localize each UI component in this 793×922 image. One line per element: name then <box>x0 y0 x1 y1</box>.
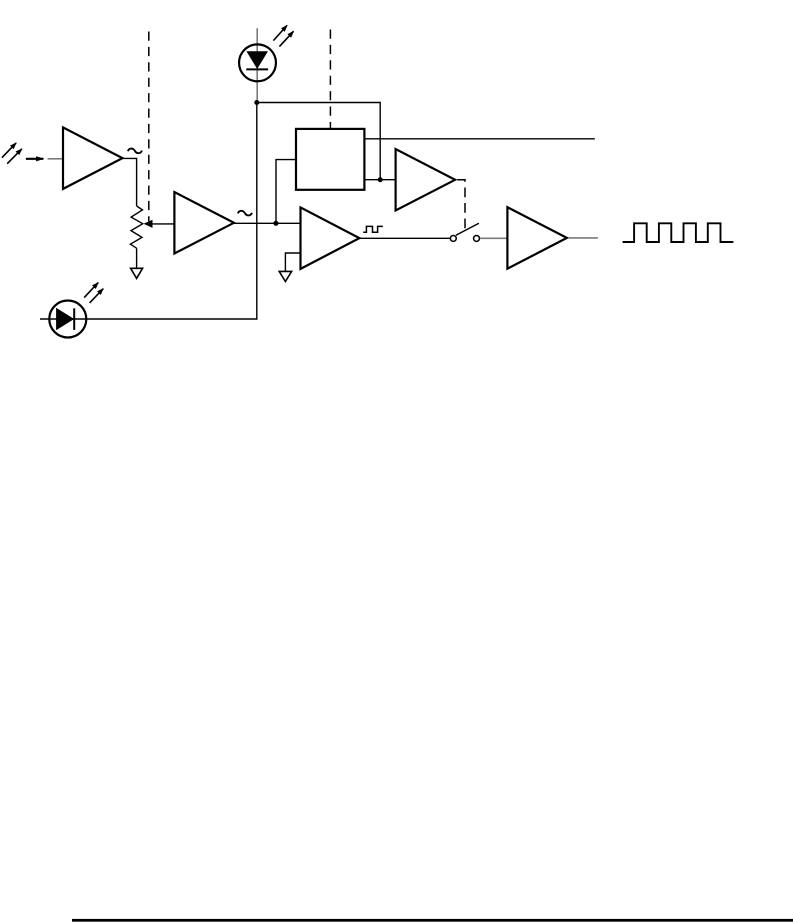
input signal arrow <box>26 158 44 160</box>
potentiometer R1 <box>130 206 142 248</box>
ground under A3 <box>279 271 291 281</box>
ground wire at A3 lower input <box>285 253 301 271</box>
pulse glyph at A3 output <box>363 226 383 232</box>
wire switch to A5 <box>480 237 508 239</box>
wire R1 to ground <box>136 248 138 268</box>
amplifier A5 <box>507 207 567 269</box>
amplifier A1 <box>63 127 123 188</box>
dashed control link A4 to switch <box>457 180 465 229</box>
LED D1 (top) <box>239 28 276 102</box>
node junction below D1 <box>254 100 259 105</box>
light arrows from LED D1 <box>273 25 293 46</box>
wire A2 output to A3 input <box>235 222 302 224</box>
footer rule <box>72 919 793 922</box>
light arrows into amplifier A1 input <box>2 143 22 164</box>
tilde at A2 output <box>238 211 252 216</box>
wire U1 lower right to A4 <box>365 179 396 181</box>
wire A1 output to potentiometer <box>124 158 137 206</box>
amplifier A2 <box>174 192 234 254</box>
amplifier A3 (comparator) <box>301 207 360 269</box>
vertical wire down to LED D2 line <box>40 103 257 320</box>
light arrows from LED D2 <box>84 283 103 303</box>
dashed line into block U1 <box>329 30 331 129</box>
long wire from U1 upper right <box>365 138 595 140</box>
LED D2 (bottom left) <box>49 301 86 338</box>
wire into A1 <box>48 158 64 160</box>
amplifier A4 <box>396 149 456 211</box>
switch S1 <box>450 223 479 241</box>
tilde at A1 output <box>128 149 142 154</box>
square wave output symbol <box>623 223 734 242</box>
ground under R1 <box>131 268 143 278</box>
wire A5 output <box>569 237 598 239</box>
node junction on A2-A3 wire <box>273 221 278 226</box>
wire A3 output to switch <box>360 237 450 239</box>
wire junction to right then down to A4 input <box>257 103 380 180</box>
node junction at A4 input <box>378 177 383 182</box>
block U1 <box>296 129 364 190</box>
wiper arrow <box>152 223 174 225</box>
wire U1 left to signal node <box>276 160 296 224</box>
dashed line (mechanical coupling) to potentiometer <box>148 32 150 222</box>
